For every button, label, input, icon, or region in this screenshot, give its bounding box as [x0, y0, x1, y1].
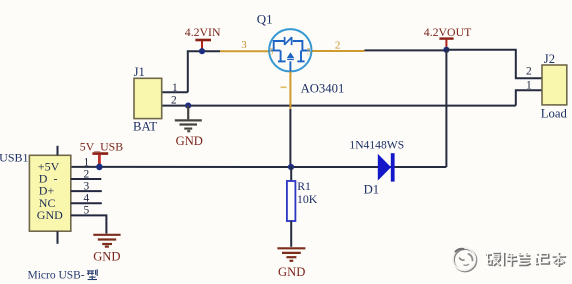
svg-text:10K: 10K [297, 192, 318, 206]
label Load [541, 106, 568, 120]
label J2 [544, 52, 555, 66]
wire: ground rail USB pin1 to diode net [71, 166, 447, 168]
wire: Q1 drain orange segment pin 2 [311, 50, 365, 52]
svg-text:3: 3 [241, 39, 247, 51]
transistor Q1 drain contact [297, 51, 304, 62]
transistor Q1 body-diode loop [271, 41, 311, 51]
junction: 4.2VOUT node [443, 47, 449, 53]
wire: vertical from 4.2VIN corner down to J1 pin 1 [188, 51, 220, 92]
label R1 [297, 179, 311, 193]
svg-text:5: 5 [269, 47, 274, 57]
connector USB1 box [29, 155, 70, 231]
label J1 pin number 2 [171, 94, 177, 106]
wire: USB pin 4 stub [71, 202, 102, 204]
ground symbol below R1 [277, 248, 305, 260]
pin name GND [37, 208, 63, 222]
wire: J1 pin 1 stub [162, 91, 188, 93]
label USB pin number 5 [83, 205, 89, 217]
svg-text:5V_USB: 5V_USB [80, 140, 123, 154]
faint pin number 5 right of Q1 [307, 47, 312, 57]
USB1 bottom mounting stub [57, 231, 59, 244]
wire: gate vertical navy segment down to R1 node [289, 109, 291, 167]
wire: USB pin 3 stub [71, 190, 102, 192]
label USB1 [0, 150, 29, 164]
svg-text:1: 1 [83, 156, 89, 168]
value label AO3401 [301, 82, 345, 96]
label J2 pin number 2 [526, 66, 532, 78]
pin name D - [39, 172, 58, 186]
label J1 pin number 1 [172, 82, 178, 94]
faint pin 1 dash under Q1 [281, 86, 287, 88]
transistor Q1 body-diode glyph [285, 37, 292, 45]
label J2 pin number 1 [526, 80, 532, 92]
label D1 [364, 182, 380, 196]
svg-text:5: 5 [83, 205, 89, 217]
label USB pin number 4 [83, 193, 89, 205]
pin name +5V [38, 160, 60, 174]
ground symbol below USB pin 5 [93, 235, 120, 247]
label USB pin number 2 [83, 168, 89, 180]
wire: vertical 4.2VOUT node down to diode rail [445, 50, 447, 167]
wire: USB pin 5 to ground [71, 215, 107, 233]
svg-text:AO3401: AO3401 [301, 82, 345, 96]
diode D1 [378, 153, 395, 181]
label: pin number 2 (orange) [335, 39, 341, 51]
svg-text:J1: J1 [134, 65, 145, 79]
svg-text:GND: GND [176, 134, 203, 148]
value label 1N4148WS [349, 138, 404, 151]
wire: drain to 4.2VOUT junction [365, 49, 447, 51]
svg-text:3: 3 [83, 181, 89, 193]
svg-text:1: 1 [172, 82, 178, 94]
wire: gate vertical orange segment [289, 72, 291, 110]
transistor Q1 source contact [278, 51, 286, 62]
power port 4.2VOUT bar [439, 39, 453, 50]
net label 5V_USB [80, 140, 123, 154]
svg-text:GND: GND [93, 250, 120, 264]
label CJK glyph for type (xing) [87, 269, 97, 279]
label GND (J1 ground) [176, 134, 203, 148]
svg-text:R1: R1 [297, 179, 311, 193]
svg-text:Micro USB-: Micro USB- [28, 269, 85, 281]
label BAT [133, 120, 157, 134]
svg-text:4: 4 [83, 193, 89, 205]
wire: USB pin 2 stub [71, 178, 102, 180]
svg-text:4.2VOUT: 4.2VOUT [424, 25, 472, 39]
connector J1 box [134, 78, 162, 118]
wire: horizontal rail J1 pin 2 to J2 pin 1 [162, 105, 516, 107]
svg-text:GND: GND [37, 208, 63, 222]
svg-text:5: 5 [307, 47, 312, 57]
watermark text (shadow layer) [486, 253, 566, 267]
label USB pin number 1 [83, 156, 89, 168]
svg-text:D1: D1 [364, 182, 380, 196]
watermark logo circle [453, 248, 476, 271]
label GND (USB ground) [93, 250, 120, 264]
wire: orange segment pin 3 to Q1 source [220, 50, 270, 52]
resistor R1 body [287, 167, 296, 247]
wire: top rail from 4.2VOUT to J2 pin 2 [446, 50, 542, 79]
label USB pin number 3 [83, 181, 89, 193]
wire: J2 pin 1 down to ground rail [516, 90, 542, 105]
net label 4.2VOUT [424, 25, 472, 39]
transistor Q1 substrate arrow [287, 52, 294, 59]
label Micro USB-type [28, 269, 85, 281]
svg-text:USB1: USB1 [0, 150, 29, 164]
connector J2 box [542, 65, 567, 105]
junction: J1 pin 2 / GND [185, 103, 191, 109]
svg-text:1: 1 [526, 80, 532, 92]
pin name NC [39, 196, 56, 210]
svg-text:2: 2 [335, 39, 341, 51]
transistor Q1 circle [269, 29, 311, 71]
svg-text:Load: Load [541, 106, 568, 120]
power port 4.2VIN bar [195, 40, 211, 51]
svg-text:Q1: Q1 [257, 12, 273, 27]
svg-text:4.2VIN: 4.2VIN [185, 25, 221, 39]
label: pin number 3 (orange) [241, 39, 247, 51]
label Q1 [257, 12, 273, 27]
pin name D+ [39, 184, 55, 198]
svg-text:BAT: BAT [133, 120, 157, 134]
svg-text:GND: GND [278, 265, 305, 279]
net label 4.2VIN [185, 25, 221, 39]
watermark text (white layer) [485, 252, 565, 266]
ground symbol at J1 pin 2 [175, 106, 202, 132]
transistor Q1 gate stroke inside circle [289, 61, 291, 71]
svg-text:2: 2 [171, 94, 177, 106]
power port 5V_USB bar [92, 154, 108, 167]
label GND (R1 ground) [278, 265, 305, 279]
svg-text:J2: J2 [544, 52, 555, 66]
junction: 5V_USB node [96, 164, 103, 171]
faint pin number 5 left of Q1 [269, 47, 274, 57]
value label 10K [297, 192, 318, 206]
junction: R1 / gate node [288, 164, 294, 170]
USB1 top mounting stub [57, 146, 59, 156]
svg-text:1N4148WS: 1N4148WS [349, 138, 404, 151]
svg-text:2: 2 [83, 168, 89, 180]
label J1 [134, 65, 145, 79]
svg-text:2: 2 [526, 66, 532, 78]
junction: 4.2VIN on wire [199, 48, 205, 54]
